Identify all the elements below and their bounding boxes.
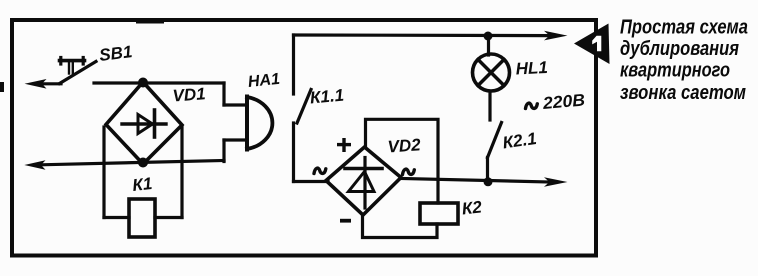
svg-text:квартирного: квартирного [620,60,730,82]
svg-text:HA1: HA1 [247,71,281,91]
svg-text:К1.1: К1.1 [309,86,345,108]
svg-text:К1: К1 [131,174,153,195]
svg-text:220В: 220В [541,90,586,113]
svg-text:HL1: HL1 [515,58,548,79]
svg-text:звонка саетом: звонка саетом [620,82,746,104]
svg-text:дублирования: дублирования [620,38,739,60]
svg-text:VD2: VD2 [387,135,422,156]
svg-text:Простая схема: Простая схема [620,17,748,39]
svg-text:К2: К2 [461,197,483,218]
svg-text:SB1: SB1 [98,42,133,65]
svg-text:К2.1: К2.1 [501,129,537,153]
svg-text:VD1: VD1 [172,84,206,105]
